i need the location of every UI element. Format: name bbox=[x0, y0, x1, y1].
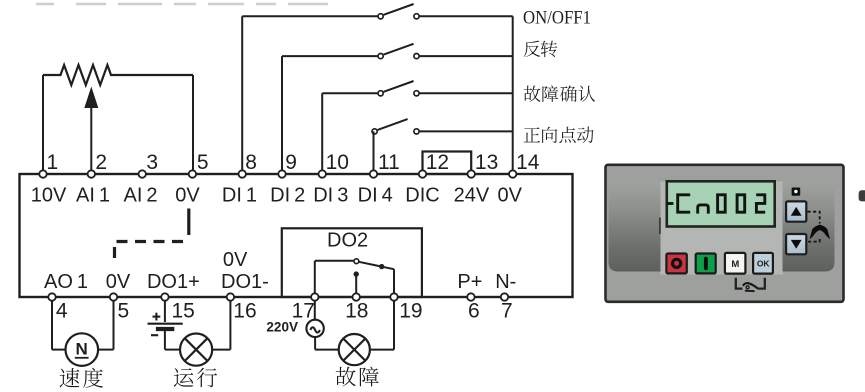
svg-text:13: 13 bbox=[475, 151, 498, 174]
svg-text:4: 4 bbox=[56, 300, 68, 323]
svg-text:DIC: DIC bbox=[405, 185, 439, 207]
svg-text:9: 9 bbox=[285, 151, 297, 174]
svg-text:0V: 0V bbox=[497, 185, 522, 207]
svg-text:1: 1 bbox=[47, 151, 59, 174]
svg-text:8: 8 bbox=[245, 151, 257, 174]
svg-text:7: 7 bbox=[501, 300, 513, 323]
svg-text:5: 5 bbox=[118, 300, 130, 323]
svg-text:DI 2: DI 2 bbox=[270, 185, 305, 207]
svg-text:19: 19 bbox=[399, 300, 422, 323]
svg-text:15: 15 bbox=[172, 300, 195, 323]
svg-text:DI 1: DI 1 bbox=[222, 185, 257, 207]
svg-text:16: 16 bbox=[233, 300, 256, 323]
svg-text:0V: 0V bbox=[175, 185, 200, 207]
svg-text:0V: 0V bbox=[106, 271, 131, 293]
svg-text:N-: N- bbox=[495, 271, 516, 293]
svg-text:N: N bbox=[75, 340, 87, 359]
svg-text:AI 2: AI 2 bbox=[123, 185, 157, 207]
svg-text:24V: 24V bbox=[454, 185, 490, 207]
svg-text:DO1+: DO1+ bbox=[147, 271, 200, 293]
svg-text:M: M bbox=[731, 259, 739, 270]
svg-text:10V: 10V bbox=[31, 185, 67, 207]
svg-text:AI 1: AI 1 bbox=[76, 185, 110, 207]
svg-text:6: 6 bbox=[468, 300, 480, 323]
svg-text:10: 10 bbox=[326, 151, 349, 174]
svg-text:P+: P+ bbox=[457, 271, 482, 293]
svg-text:DI 3: DI 3 bbox=[313, 185, 348, 207]
svg-text:18: 18 bbox=[345, 300, 368, 323]
svg-text:DO1-: DO1- bbox=[221, 271, 269, 293]
svg-text:AO 1: AO 1 bbox=[44, 271, 88, 293]
svg-text:17: 17 bbox=[292, 300, 315, 323]
svg-text:11: 11 bbox=[378, 151, 400, 174]
svg-text:5: 5 bbox=[197, 151, 209, 174]
svg-text:0V: 0V bbox=[223, 249, 248, 271]
svg-text:2: 2 bbox=[95, 151, 107, 174]
svg-text:14: 14 bbox=[516, 151, 540, 174]
svg-text:DI 4: DI 4 bbox=[358, 185, 393, 207]
svg-text:ON/OFF1: ON/OFF1 bbox=[523, 9, 591, 29]
svg-text:3: 3 bbox=[146, 151, 158, 174]
svg-text:DO2: DO2 bbox=[327, 230, 368, 252]
svg-text:12: 12 bbox=[426, 151, 449, 174]
svg-text:OK: OK bbox=[757, 259, 771, 269]
